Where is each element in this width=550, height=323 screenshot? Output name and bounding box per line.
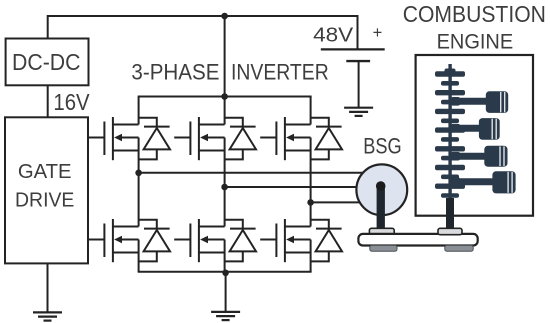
wire inverter feed: [224, 16, 226, 97]
transistor Q5: [174, 187, 224, 272]
belt bar: [358, 234, 477, 246]
diode D2: [225, 118, 256, 160]
node inverter top rail: [221, 93, 228, 100]
engine piston P1: [450, 91, 508, 113]
wire inverter top rail: [138, 96, 312, 98]
pulley pad left: [370, 245, 397, 251]
svg-text:48V: 48V: [313, 24, 354, 46]
pulley cap BSG: [369, 228, 394, 234]
node phase C: [307, 199, 314, 206]
battery 48V plate long: [321, 48, 385, 50]
wire 16V: [47, 85, 49, 117]
svg-text:COMBUSTION: COMBUSTION: [403, 1, 546, 27]
pulley pad right: [445, 245, 473, 251]
motor BSG body: [356, 164, 407, 215]
transistor Q6: [260, 202, 310, 271]
svg-text:16V: 16V: [53, 89, 90, 115]
transistor Q2: [174, 97, 224, 188]
transistor Q4: [88, 173, 139, 272]
motor BSG shaft: [376, 181, 386, 230]
engine crankshaft: [435, 64, 465, 230]
svg-text:3-PHASE: 3-PHASE: [131, 60, 219, 85]
engine box: [416, 55, 533, 216]
svg-text:BSG: BSG: [363, 134, 401, 159]
wire top 48V rail: [48, 16, 358, 49]
node bottom rail ground tap: [222, 270, 229, 277]
svg-text:DRIVE: DRIVE: [15, 188, 74, 211]
wire phase C output: [311, 201, 366, 203]
svg-text:ENGINE: ENGINE: [437, 29, 514, 54]
engine piston P4: [450, 171, 516, 193]
gate driver U1: [5, 117, 88, 263]
node phase B: [221, 184, 228, 191]
engine piston P2: [450, 118, 500, 140]
diode D5: [225, 220, 256, 262]
battery 48V plate short: [346, 60, 370, 62]
wire inverter bottom rail: [138, 271, 312, 273]
transistor Q3: [260, 97, 310, 203]
diode D4: [139, 220, 170, 262]
wire phase B output: [225, 186, 360, 188]
svg-text:+: +: [373, 24, 383, 42]
diode D1: [139, 118, 170, 160]
converter DC-DC: [6, 39, 89, 86]
node phase A: [135, 170, 142, 177]
wire phase A output: [139, 172, 366, 174]
svg-text:GATE: GATE: [18, 160, 72, 183]
ground inverter: [211, 272, 240, 320]
engine piston P3: [450, 146, 508, 167]
pulley cap engine: [438, 228, 462, 234]
diode D3: [311, 118, 342, 160]
ground battery: [344, 61, 373, 116]
diode D6: [311, 220, 342, 262]
transistor Q1: [88, 97, 139, 173]
ground gate drive: [33, 263, 62, 320]
node top rail / inverter tap: [221, 13, 228, 20]
svg-text:INVERTER: INVERTER: [231, 60, 329, 85]
svg-text:DC-DC: DC-DC: [12, 49, 81, 75]
